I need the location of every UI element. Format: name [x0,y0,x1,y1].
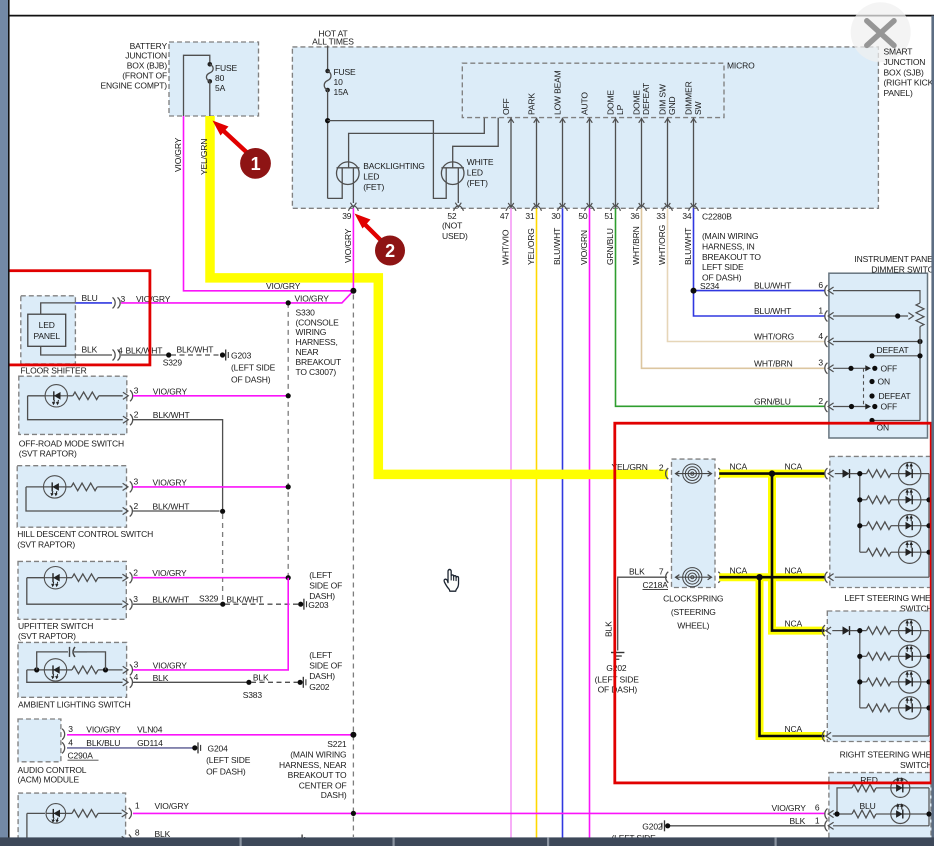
svg-text:BREAKOUT TO: BREAKOUT TO [702,252,761,262]
potentiometer [916,303,924,327]
svg-text:(CONSOLE: (CONSOLE [296,317,340,327]
svg-text:BLK/WHT: BLK/WHT [152,595,189,605]
svg-text:VIO/GRY: VIO/GRY [155,801,190,811]
wire BLK/WHT off-road [133,420,223,509]
defeat contact line [872,355,920,357]
svg-text:3: 3 [818,358,823,368]
clockspring coil pin7 [676,576,712,578]
svg-text:2: 2 [133,568,138,578]
svg-text:OFF-ROAD MODE SWITCH: OFF-ROAD MODE SWITCH [19,438,124,448]
svg-text:USED): USED) [442,231,468,241]
svg-text:LEFT SIDE: LEFT SIDE [702,262,744,272]
transistor backlighting LED FET [349,118,485,168]
audio control ACM module [18,719,61,762]
wire VIO/GRY hill descent [133,486,288,488]
svg-text:VIO/GRN: VIO/GRN [579,230,589,265]
resistor row1 [867,627,892,635]
resistor row4 [860,551,867,553]
svg-text:MICRO: MICRO [727,60,755,70]
pin 30 connector [558,206,568,211]
svg-text:BLK/WHT: BLK/WHT [153,502,190,512]
dimmer pin 3 [825,363,828,374]
svg-text:DASH): DASH) [309,671,335,681]
wire BLU/WHT pin34 to S234 [694,208,825,290]
svg-text:C218A: C218A [643,580,669,590]
diode row1 [825,468,828,479]
svg-text:(SVT RAPTOR): (SVT RAPTOR) [18,631,76,641]
svg-text:VIO/GRY: VIO/GRY [153,477,188,487]
svg-text:(LEFT SIDE: (LEFT SIDE [595,674,640,684]
svg-text:OFF: OFF [501,98,511,115]
svg-text:3: 3 [68,724,73,734]
svg-text:5A: 5A [215,83,226,93]
svg-text:VLN04: VLN04 [137,725,163,735]
svg-text:HARNESS, NEAR: HARNESS, NEAR [279,760,346,770]
svg-text:G203: G203 [308,600,329,610]
svg-text:(FET): (FET) [467,178,488,188]
svg-text:BLK/WHT: BLK/WHT [177,344,214,354]
micro pin line DOME [615,118,617,208]
svg-text:3: 3 [133,594,138,604]
svg-text:2: 2 [659,463,664,473]
svg-text:10: 10 [334,77,344,87]
svg-text:JUNCTION: JUNCTION [125,51,167,61]
wire WHT/ORG pin33 [668,208,825,341]
annotation arrow 1 [221,129,248,154]
svg-text:VIO/GRY: VIO/GRY [343,228,353,263]
svg-text:LP: LP [615,104,625,115]
wire VIO/GRY ambient (from S330) [133,578,288,670]
wire BLK to G202 [668,825,825,827]
svg-text:WHT/BRN: WHT/BRN [754,358,793,368]
splice bus to S329 [222,514,224,601]
svg-text:WHEEL): WHEEL) [677,620,709,630]
svg-text:DIMMER: DIMMER [684,81,694,115]
micro pin line PARK [536,118,538,208]
floor shifter box [21,296,76,364]
switch wiper pin3 [833,367,866,369]
svg-text:(SVT RAPTOR): (SVT RAPTOR) [17,539,75,549]
svg-text:VIO/GRY: VIO/GRY [136,294,171,304]
bottom right switch box [829,773,931,843]
left steering wheel switch [830,456,932,587]
svg-text:VIO/GRY: VIO/GRY [153,660,188,670]
svg-text:NCA: NCA [730,462,748,472]
svg-text:52: 52 [447,211,457,221]
svg-text:(MAIN WIRING: (MAIN WIRING [702,231,758,241]
svg-text:(RIGHT KICK: (RIGHT KICK [884,78,934,88]
LED panel [28,314,66,346]
svg-text:BLK: BLK [155,829,171,839]
svg-text:BLU/WHT: BLU/WHT [683,228,693,265]
svg-text:BLK: BLK [604,621,614,637]
svg-text:BLU/WHT: BLU/WHT [754,281,791,291]
resistor row2 [860,655,867,657]
bottom switch box [18,793,126,845]
LED bottom switch [46,804,66,824]
splice S221 [350,732,356,738]
dimmer internals [833,291,920,303]
svg-text:ON: ON [878,377,890,387]
svg-text:LED: LED [363,172,379,182]
dimmer pin 1 [825,311,828,322]
svg-text:S383: S383 [243,690,263,700]
svg-text:(LEFT SIDE: (LEFT SIDE [206,755,251,765]
wire BJB internal [184,55,210,116]
svg-text:NCA: NCA [785,462,803,472]
BLU LED branch [833,813,852,815]
svg-text:ALL TIMES: ALL TIMES [312,36,354,46]
ground G202 symbol [611,652,624,654]
svg-text:WHT/VIO: WHT/VIO [501,229,511,265]
svg-text:AMBIENT LIGHTING SWITCH: AMBIENT LIGHTING SWITCH [18,700,131,710]
wire BLU [41,303,76,314]
svg-text:SWITCH: SWITCH [900,760,933,770]
svg-text:WHT/BRN: WHT/BRN [631,226,641,265]
svg-text:BLK/WHT: BLK/WHT [153,410,190,420]
LED [891,525,899,527]
svg-text:BLK/BLU: BLK/BLU [86,738,120,748]
dimmer pin 2 [825,401,828,412]
pin 51 connector [611,206,621,211]
ground G204 [192,745,197,750]
svg-text:47: 47 [500,211,510,221]
svg-text:3: 3 [134,660,139,670]
LED [891,707,899,709]
pin 31 connector [532,206,542,211]
battery junction box BJB [169,42,259,116]
wire VIO/GRY pin39 [352,208,354,290]
svg-text:OFF: OFF [881,364,898,374]
svg-text:OF DASH): OF DASH) [598,685,638,695]
svg-text:VIO/GRY: VIO/GRY [772,803,807,813]
cursor hand pointer [444,569,458,591]
svg-text:30: 30 [551,211,561,221]
svg-text:YEL/GRN: YEL/GRN [199,139,209,175]
svg-text:3: 3 [121,294,126,304]
svg-text:3: 3 [134,386,139,396]
svg-text:LED: LED [39,320,55,330]
svg-text:2: 2 [385,241,395,261]
wire BLU/WHT pin30 [562,208,564,838]
connector C3007 pins [113,297,116,308]
wire BLK/WHT upfitter to S329 [133,603,223,605]
wire WHT/VIO pin47 [510,208,512,838]
svg-text:SIDE OF: SIDE OF [309,661,342,671]
svg-text:FUSE: FUSE [215,63,238,73]
LED [891,473,899,475]
svg-text:BLK: BLK [790,816,806,826]
svg-text:BOX (BJB): BOX (BJB) [127,61,168,71]
svg-text:39: 39 [342,211,352,221]
svg-text:S221: S221 [327,739,347,749]
pin 52 connector [454,206,464,211]
svg-text:VIO/GRY: VIO/GRY [295,293,330,303]
svg-text:4: 4 [68,737,73,747]
svg-text:(LEFT: (LEFT [309,570,332,580]
svg-text:DEFEAT: DEFEAT [641,83,651,115]
micro pin line DIMMER [693,118,695,208]
svg-text:8: 8 [135,827,140,837]
svg-text:ENGINE COMPT): ENGINE COMPT) [100,80,167,90]
resistor row1 [867,470,892,478]
wire YEL/ORG pin31 [536,208,538,838]
svg-text:DASH): DASH) [321,790,347,800]
svg-text:BATTERY: BATTERY [130,41,168,51]
wire NCA row1 [719,470,824,478]
svg-text:BOX (SJB): BOX (SJB) [884,67,925,77]
svg-text:3: 3 [134,477,139,487]
instrument panel dimmer switch [829,273,928,438]
svg-text:7: 7 [659,566,664,576]
svg-text:YEL/ORG: YEL/ORG [526,228,536,265]
wire GD114 BLK/BLU [67,747,193,749]
pin 6 [825,809,828,820]
pin 50 connector [585,206,595,211]
svg-text:(MAIN WIRING: (MAIN WIRING [290,749,346,759]
footer bar [0,837,934,846]
RED LED branch [837,788,852,814]
LED [891,681,899,683]
svg-text:80: 80 [215,73,225,83]
annotation circle 2 [375,236,405,266]
annotation arrow 2 [362,222,382,242]
return row [825,572,828,583]
wire VIO/GRN pin50 [589,208,591,838]
svg-text:VIO/GRY: VIO/GRY [173,137,183,172]
svg-text:G203: G203 [231,350,252,360]
svg-text:G202: G202 [309,682,330,692]
svg-text:OF DASH): OF DASH) [231,374,271,384]
svg-text:51: 51 [604,211,614,221]
wire BLK/WHT hill descent [133,510,220,512]
svg-text:15A: 15A [334,87,349,97]
svg-text:4: 4 [118,346,123,356]
svg-text:(NOT: (NOT [442,221,462,231]
svg-text:NCA: NCA [785,619,803,629]
svg-text:AUTO: AUTO [580,92,590,115]
off-road mode switch [19,376,127,434]
pin 1 BLK row [825,820,828,831]
svg-text:WHT/ORG: WHT/ORG [657,225,667,265]
dimmer pin 4 [825,336,828,347]
svg-text:(FRONT OF: (FRONT OF [122,71,167,81]
ground G203 [220,352,225,357]
svg-text:G202: G202 [642,821,663,831]
LED [891,630,899,632]
svg-text:DEFEAT: DEFEAT [879,391,911,401]
page chrome [0,0,8,846]
svg-text:6: 6 [815,802,820,812]
svg-text:2: 2 [818,396,823,406]
svg-text:VIO/GRY: VIO/GRY [266,281,301,291]
svg-text:50: 50 [578,211,588,221]
ground G203 left side of dash [298,602,303,607]
svg-text:G202: G202 [606,663,627,673]
svg-text:FLOOR SHIFTER: FLOOR SHIFTER [21,365,87,375]
hill descent control switch [17,466,126,528]
svg-text:SIDE OF: SIDE OF [309,581,342,591]
micro pin line AUTO [589,118,591,208]
svg-text:4: 4 [134,672,139,682]
wire fuse to FETs [327,90,329,198]
wire WHT/BRN pin36 [642,208,825,368]
transistor white LED FET [453,118,499,168]
svg-text:BLK: BLK [153,673,169,683]
wire YEL/GRN thick yellow [210,116,668,474]
svg-text:BREAKOUT TO: BREAKOUT TO [288,770,347,780]
svg-text:NCA: NCA [785,565,803,575]
svg-text:VIO/GRY: VIO/GRY [153,386,188,396]
svg-text:WIRING: WIRING [296,327,327,337]
svg-text:S330: S330 [296,307,316,317]
svg-text:1: 1 [818,305,823,315]
close button X [851,2,911,62]
svg-text:TO C3007): TO C3007) [296,367,337,377]
pin 36 connector [637,206,647,211]
clockspring coil pin2 [676,473,712,475]
svg-text:BLU/WHT: BLU/WHT [552,228,562,265]
svg-text:NEAR: NEAR [296,347,319,357]
annotation circle 1 [240,148,271,179]
smart junction box SJB [292,47,878,208]
svg-text:S329: S329 [199,594,219,604]
svg-text:36: 36 [630,211,640,221]
svg-text:WHT/ORG: WHT/ORG [754,332,794,342]
svg-text:(FET): (FET) [363,182,384,192]
svg-text:CLOCKSPRING: CLOCKSPRING [663,594,723,604]
pin 47 connector [506,206,516,211]
upfitter switch [18,561,126,619]
splice S234 [691,288,697,294]
svg-text:GRN/BLU: GRN/BLU [605,228,615,265]
svg-text:4: 4 [818,331,823,341]
svg-text:BLK: BLK [82,345,98,355]
svg-text:BLK: BLK [253,673,269,683]
svg-text:GND: GND [667,97,677,115]
svg-text:BLU: BLU [82,293,98,303]
wire GRN/BLU pin51 [616,208,825,406]
svg-text:GRN/BLU: GRN/BLU [754,397,791,407]
svg-text:LOW BEAM: LOW BEAM [553,70,563,115]
svg-text:LEFT STEERING WHEEL: LEFT STEERING WHEEL [845,593,934,603]
wire NCA vertical to right box row1 [772,474,825,631]
svg-text:G204: G204 [208,744,229,754]
splice bus S221 [352,295,354,838]
svg-text:1: 1 [815,815,820,825]
svg-text:DIMMER SWITCH: DIMMER SWITCH [871,264,934,274]
svg-text:(LEFT: (LEFT [309,650,332,660]
wire BLK ambient to S383 [133,681,249,683]
svg-text:BREAKOUT: BREAKOUT [296,357,342,367]
svg-text:OF DASH): OF DASH) [206,767,246,777]
resistor row2 [860,499,867,501]
clockspring box [672,459,716,587]
svg-text:GD114: GD114 [137,738,163,748]
svg-text:S329: S329 [163,357,183,367]
svg-text:33: 33 [656,211,666,221]
svg-text:HARNESS, IN: HARNESS, IN [702,241,755,251]
svg-text:PARK: PARK [527,93,537,115]
LED [891,655,899,657]
svg-text:PANEL: PANEL [33,331,60,341]
svg-text:C2280B: C2280B [702,212,732,222]
svg-text:(LEFT SIDE: (LEFT SIDE [231,362,276,372]
svg-text:BLU/WHT: BLU/WHT [754,306,791,316]
pin 34 connector [689,206,699,211]
svg-text:BLK/WHT: BLK/WHT [126,346,163,356]
svg-text:LED: LED [467,168,483,178]
svg-text:(SVT RAPTOR): (SVT RAPTOR) [19,449,77,459]
svg-text:VIO/GRY: VIO/GRY [152,568,187,578]
splice bus S330 [287,303,289,578]
wire BLK to G202 [618,577,667,650]
LED [891,499,899,501]
svg-text:6: 6 [818,280,823,290]
svg-text:SW: SW [693,101,703,115]
svg-text:2: 2 [134,410,139,420]
wire VIO/GRY to floor shifter [121,291,353,303]
ambient lighting switch [18,642,127,697]
svg-text:DIM SW: DIM SW [658,84,668,115]
svg-text:(STEERING: (STEERING [671,607,716,617]
svg-text:HILL DESCENT CONTROL SWITCH: HILL DESCENT CONTROL SWITCH [17,529,153,539]
svg-text:S234: S234 [700,281,720,291]
svg-text:YEL/GRN: YEL/GRN [612,462,648,472]
svg-text:C290A: C290A [68,751,94,761]
wire VLN04 VIO/GRY [67,734,351,736]
svg-text:BACKLIGHTING: BACKLIGHTING [363,161,425,171]
svg-text:VIO/GRY: VIO/GRY [86,725,121,735]
wire VIO/GRY from BJB [184,116,354,291]
micro pin line LOW BEAM [562,118,564,208]
resistor row4 [860,707,867,709]
svg-text:DEFEAT: DEFEAT [877,345,909,355]
resistor row3 [860,681,867,683]
resistor row3 [860,525,867,527]
svg-text:BLK/WHT: BLK/WHT [226,595,263,605]
wire BLK [41,346,112,355]
svg-text:BLK: BLK [629,566,645,576]
LED [891,551,899,553]
svg-text:JUNCTION: JUNCTION [884,57,926,67]
wire NCA vertical to right box return [760,577,825,736]
svg-text:NCA: NCA [785,724,803,734]
micro pin line DOME [641,118,643,208]
svg-text:2: 2 [134,501,139,511]
svg-text:(ACM) MODULE: (ACM) MODULE [18,775,80,785]
annotation red rect steering [615,423,931,783]
switch wiper pin2 [833,406,866,408]
micro pin line DIM SW [667,118,669,208]
dimmer pin 6 [825,285,828,296]
micro box [462,63,724,117]
svg-text:NCA: NCA [730,565,748,575]
svg-text:OFF: OFF [881,402,898,412]
svg-text:DOME: DOME [632,90,642,115]
svg-text:FUSE: FUSE [334,67,357,77]
svg-text:UPFITTER SWITCH: UPFITTER SWITCH [18,621,93,631]
wire VIO/GRY bottom row [133,812,825,814]
node junction pin39 [350,288,356,294]
micro pin line OFF [510,118,512,208]
fuse 80 5A [208,62,213,67]
return row [822,731,825,742]
fuse 10 15A [325,69,330,74]
svg-text:INSTRUMENT PANEL: INSTRUMENT PANEL [854,254,934,264]
svg-text:1: 1 [135,800,140,810]
wire VIO/GRY upfitter [133,577,288,579]
